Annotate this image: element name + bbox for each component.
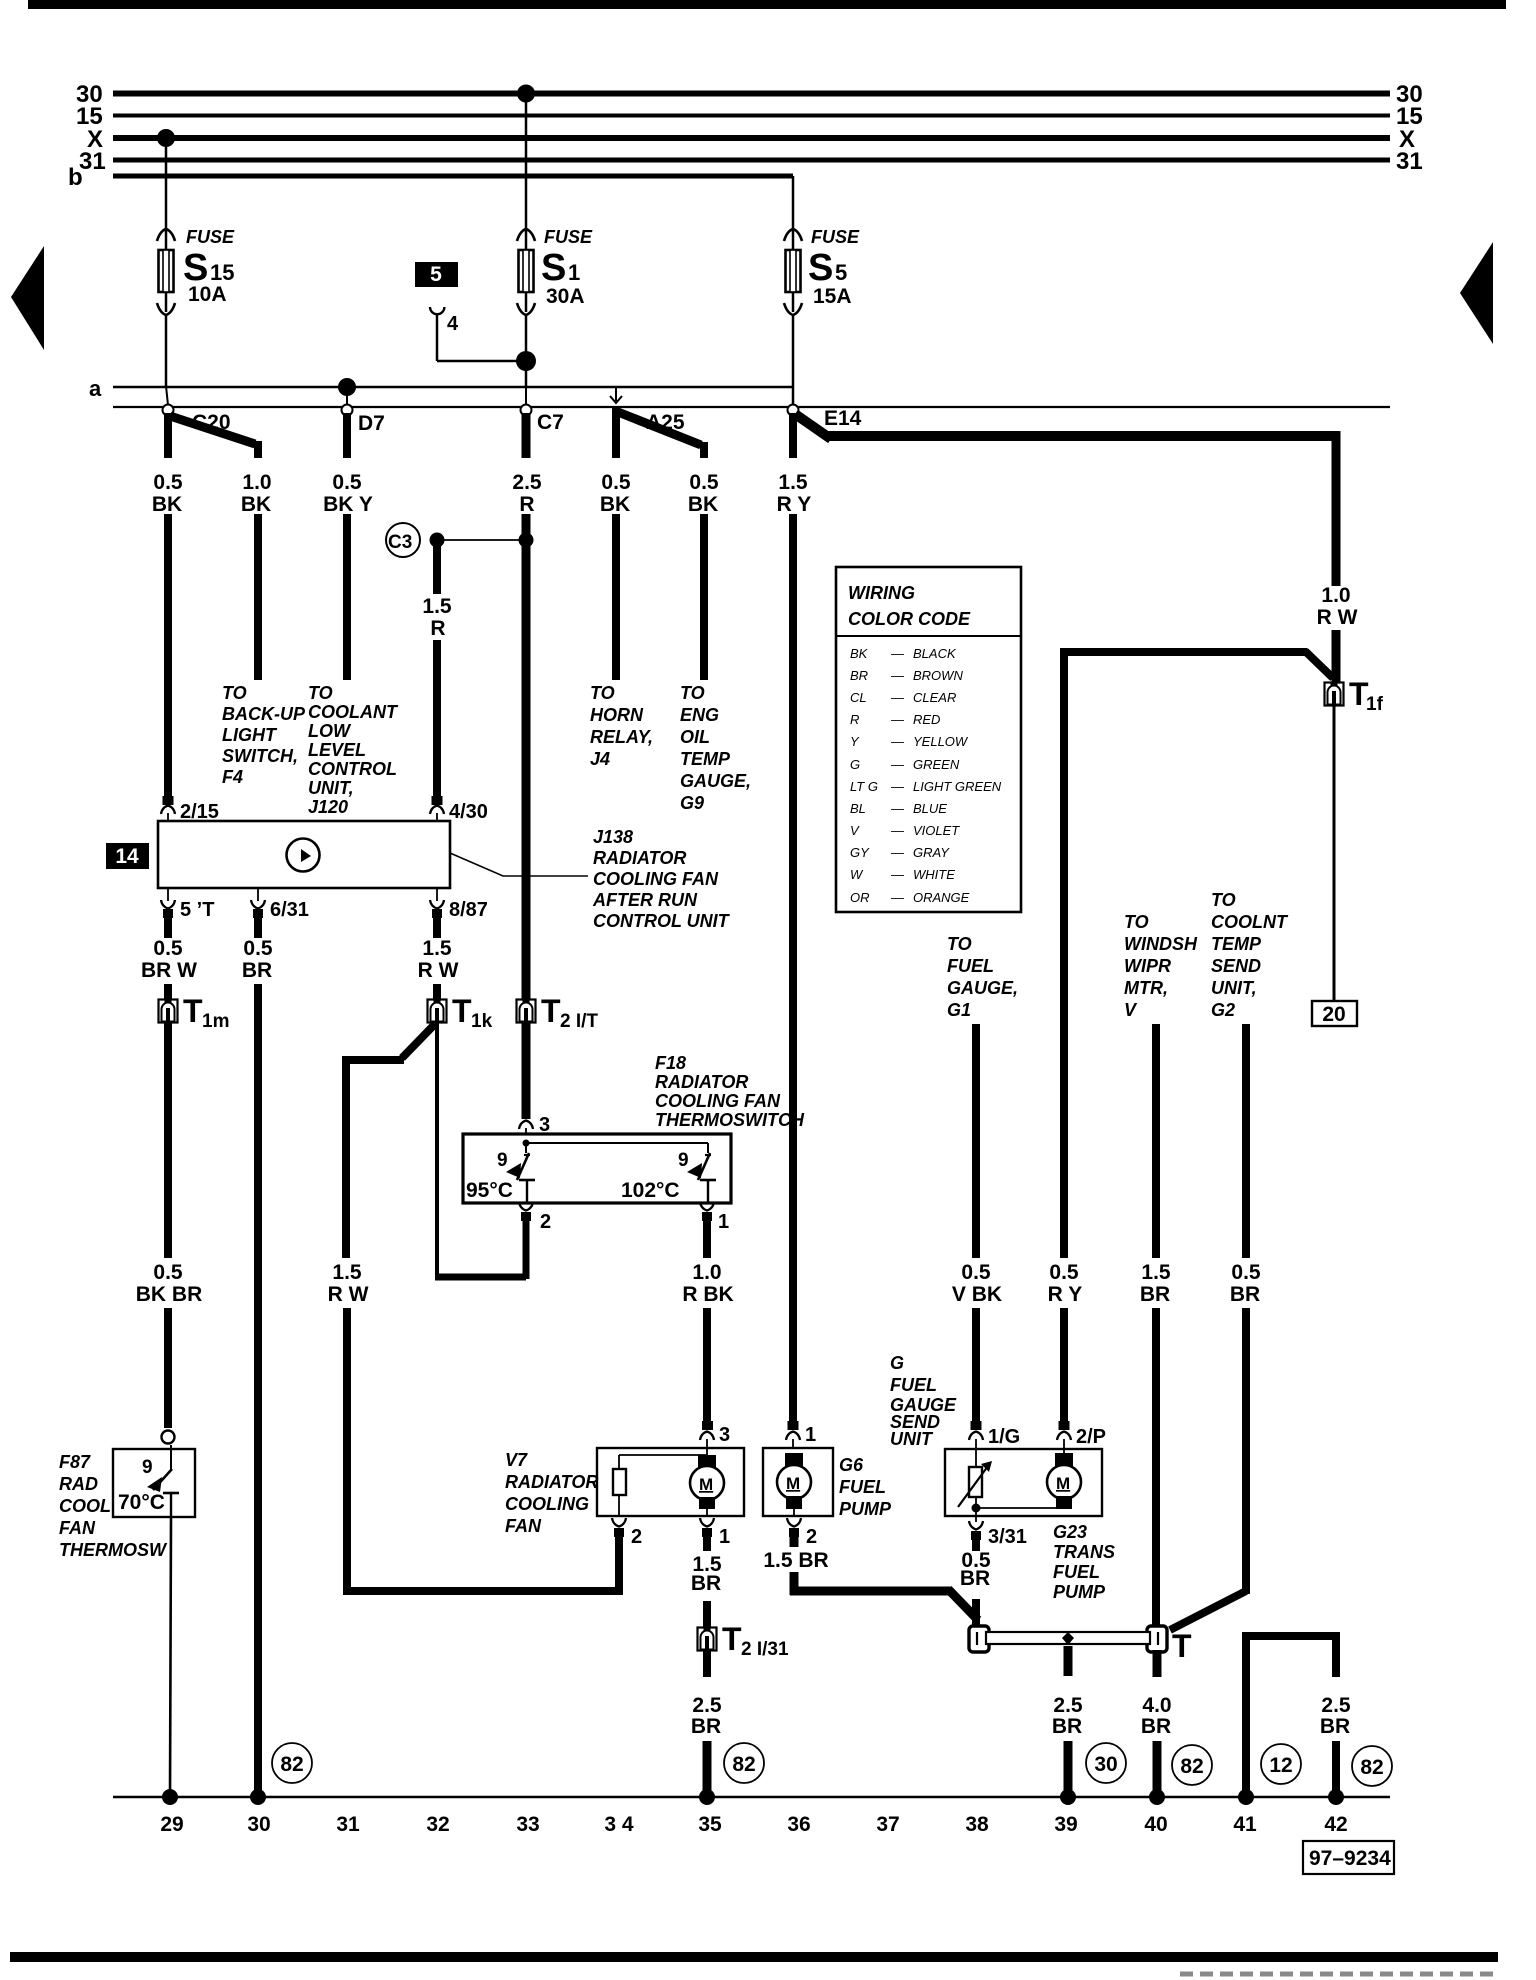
- svg-text:—: —: [890, 801, 905, 816]
- wire 1.5 R to J138 4/30: [433, 640, 441, 800]
- svg-text:J4: J4: [590, 749, 610, 769]
- svg-text:1.5: 1.5: [422, 595, 452, 618]
- wire 0.5 BR W from pin 5/T: [163, 909, 173, 918]
- wire 1.5 BR G6 to T bar: [790, 1532, 799, 1547]
- F87 switch 70C: [118, 1445, 179, 1517]
- svg-text:AFTER RUN: AFTER RUN: [592, 890, 698, 910]
- svg-text:33: 33: [516, 1813, 539, 1836]
- color code entries: [850, 646, 1002, 905]
- wire fuse S5 to terminal E14: [792, 315, 795, 407]
- svg-text:2.5: 2.5: [512, 471, 542, 494]
- svg-text:RED: RED: [913, 712, 940, 727]
- svg-text:GAUGE,: GAUGE,: [947, 978, 1018, 998]
- wire 1.5 BR to T bar: [1152, 1308, 1160, 1628]
- svg-text:BK: BK: [600, 493, 630, 516]
- svg-text:0.5: 0.5: [689, 471, 719, 494]
- svg-text:9: 9: [497, 1150, 508, 1171]
- svg-text:—: —: [890, 867, 905, 882]
- svg-text:2.5: 2.5: [1053, 1694, 1083, 1717]
- svg-text:35: 35: [698, 1813, 722, 1836]
- wire 1.5 R W from pin 8/87: [432, 909, 442, 918]
- svg-text:—: —: [890, 734, 905, 749]
- wire 2.5 BR to track 42: [1332, 1741, 1340, 1797]
- svg-text:6/31: 6/31: [270, 899, 309, 921]
- svg-text:GAUGE,: GAUGE,: [680, 771, 751, 791]
- svg-text:0.5: 0.5: [332, 471, 362, 494]
- G6 motor: [777, 1453, 811, 1517]
- connector C3: [386, 523, 420, 557]
- wire branch C20 to 1.0 BK: [170, 416, 255, 444]
- svg-text:4/30: 4/30: [449, 801, 488, 823]
- wire 0.5 V BK to 1/G: [972, 1308, 980, 1426]
- svg-text:10A: 10A: [188, 283, 227, 306]
- terminal C20: [166, 386, 168, 405]
- junction on bus X: [157, 129, 175, 147]
- svg-text:BR: BR: [1052, 1715, 1082, 1738]
- svg-text:1m: 1m: [202, 1011, 229, 1032]
- svg-text:FUSE: FUSE: [544, 227, 593, 247]
- wire bus b to fuse S5: [792, 176, 795, 230]
- wire T1f to plate 20: [1333, 706, 1336, 1001]
- svg-text:BK Y: BK Y: [323, 493, 373, 516]
- wire 0.5 BK C20 lower: [164, 514, 172, 800]
- fuse S15: [157, 229, 175, 315]
- ground symbol 12 (track 41): [1261, 1744, 1301, 1784]
- svg-text:FUEL: FUEL: [839, 1477, 886, 1497]
- connector T1f: [1325, 683, 1344, 706]
- svg-text:UNIT,: UNIT,: [1211, 978, 1257, 998]
- svg-text:UNIT: UNIT: [890, 1429, 934, 1449]
- wire 1.0 R W down from E14 branch: [1332, 431, 1341, 586]
- svg-text:BK: BK: [688, 493, 718, 516]
- svg-text:37: 37: [876, 1813, 899, 1836]
- wire F87 to track 29: [170, 1517, 171, 1797]
- wire 0.5 BK Y to J120: [343, 514, 351, 680]
- svg-text:2 I/31: 2 I/31: [741, 1639, 789, 1660]
- svg-text:RADIATOR: RADIATOR: [655, 1072, 748, 1092]
- G6 pin 2: [787, 1518, 801, 1527]
- svg-text:2: 2: [806, 1526, 817, 1548]
- svg-text:97–9234: 97–9234: [1309, 1847, 1391, 1870]
- svg-text:FAN: FAN: [59, 1518, 96, 1538]
- track node 29: [162, 1789, 178, 1805]
- wire 1.0 R BK upper: [703, 1216, 711, 1258]
- svg-text:CONTROL UNIT: CONTROL UNIT: [593, 911, 731, 931]
- junction on bus 30: [517, 85, 535, 103]
- connector T2 I/31: [698, 1628, 717, 1651]
- svg-text:FUEL: FUEL: [947, 956, 994, 976]
- jumper wire track 41 to track 42: [1242, 1632, 1250, 1797]
- svg-text:RADIATOR: RADIATOR: [505, 1472, 598, 1492]
- wire 1.5 R from C3: [433, 546, 441, 594]
- wire terminal 4 to S1 node: [437, 360, 524, 363]
- svg-text:30: 30: [1094, 1753, 1117, 1776]
- F18 pin 2: [519, 1202, 533, 1211]
- terminal D7: [346, 388, 348, 405]
- svg-text:TO: TO: [1211, 890, 1236, 910]
- svg-text:FUSE: FUSE: [186, 227, 235, 247]
- svg-text:0.5: 0.5: [153, 937, 183, 960]
- svg-text:15A: 15A: [813, 285, 852, 308]
- svg-text:TO: TO: [947, 934, 972, 954]
- F18 internal node: [523, 1140, 530, 1147]
- svg-text:RADIATOR: RADIATOR: [593, 848, 686, 868]
- svg-text:R Y: R Y: [777, 493, 812, 516]
- svg-text:0.5: 0.5: [243, 937, 273, 960]
- fuse S5: [784, 229, 802, 315]
- svg-text:—: —: [890, 712, 905, 727]
- current track tag 5: [415, 262, 458, 287]
- svg-text:3 4: 3 4: [604, 1813, 634, 1836]
- svg-text:1.5 BR: 1.5 BR: [763, 1549, 828, 1572]
- F18 pin 1: [700, 1202, 714, 1211]
- svg-text:1f: 1f: [1366, 694, 1384, 715]
- svg-text:BR: BR: [691, 1572, 721, 1595]
- svg-text:14: 14: [115, 845, 139, 868]
- svg-text:T: T: [722, 1621, 742, 1657]
- svg-text:BL: BL: [850, 801, 866, 816]
- J138 internal timer symbol: [287, 839, 320, 872]
- svg-text:38: 38: [965, 1813, 989, 1836]
- F18 pin 3: [519, 1121, 533, 1130]
- svg-text:1.5: 1.5: [778, 471, 808, 494]
- bus line 30: [113, 91, 1390, 97]
- svg-text:BK BR: BK BR: [136, 1283, 203, 1306]
- svg-text:THERMOSWITCH: THERMOSWITCH: [655, 1110, 805, 1130]
- svg-text:20: 20: [1322, 1003, 1345, 1026]
- V7 internal series resistor: [613, 1469, 626, 1495]
- svg-text:WINDSH: WINDSH: [1124, 934, 1198, 954]
- svg-text:5: 5: [835, 260, 847, 285]
- svg-text:M: M: [786, 1474, 800, 1493]
- wire 0.5 BR W to T1m: [164, 984, 172, 1001]
- svg-text:J120: J120: [308, 797, 348, 817]
- svg-text:THERMOSW: THERMOSW: [59, 1540, 168, 1560]
- svg-text:G6: G6: [839, 1455, 864, 1475]
- svg-text:C3: C3: [388, 532, 412, 553]
- fuel pump G6 pin 1: [788, 1421, 799, 1430]
- J138 pin 4/30: [432, 796, 443, 805]
- svg-text:1k: 1k: [471, 1011, 493, 1032]
- svg-text:M: M: [1056, 1474, 1070, 1493]
- bottom track rail: [113, 1796, 1390, 1798]
- G pin 2/P: [1059, 1421, 1070, 1430]
- svg-text:WIPR: WIPR: [1124, 956, 1171, 976]
- svg-text:T: T: [183, 993, 203, 1029]
- J138 pin 5/T: [167, 888, 169, 901]
- wire 0.5 BK BR to F87: [164, 1308, 172, 1428]
- junction on line a at D7: [338, 378, 356, 396]
- track node 39: [1060, 1789, 1076, 1805]
- V7 pin 1: [700, 1518, 714, 1527]
- svg-text:2/P: 2/P: [1076, 1426, 1106, 1448]
- svg-text:MTR,: MTR,: [1124, 978, 1168, 998]
- left page arrow: [11, 246, 44, 350]
- svg-text:CLEAR: CLEAR: [913, 690, 956, 705]
- svg-text:5: 5: [430, 263, 442, 286]
- line a: [113, 386, 793, 388]
- svg-text:—: —: [890, 668, 905, 683]
- svg-text:V: V: [1124, 1000, 1138, 1020]
- svg-text:BK: BK: [850, 646, 869, 661]
- connector T1m: [159, 1000, 178, 1023]
- wire 1.5 BR V7 to T2I/31: [703, 1601, 711, 1627]
- wire 0.5 BK to G9: [700, 514, 708, 680]
- svg-text:GRAY: GRAY: [913, 845, 950, 860]
- thermoswitch F87 box: [113, 1449, 195, 1517]
- wire 4.0 BR to track 40: [1153, 1741, 1162, 1797]
- svg-text:UNIT,: UNIT,: [308, 778, 354, 798]
- svg-text:3: 3: [719, 1424, 730, 1446]
- svg-text:D7: D7: [358, 412, 385, 435]
- wire elbow T1k to 1.5 R W drop: [402, 1024, 435, 1058]
- svg-text:BLUE: BLUE: [913, 801, 947, 816]
- control unit J138 box: [158, 821, 450, 888]
- page bottom border bar: [10, 1952, 1498, 1962]
- svg-text:J138: J138: [593, 827, 633, 847]
- ground symbol 82 (track 40): [1172, 1745, 1212, 1785]
- wire F18 pin 2 down: [523, 1216, 530, 1279]
- svg-text:COOL: COOL: [59, 1496, 111, 1516]
- svg-text:M: M: [699, 1475, 713, 1494]
- svg-text:8/87: 8/87: [449, 899, 488, 921]
- wire 2.5 R C7 lower: [522, 514, 531, 1002]
- wire 0.5 BK from C20 upper: [164, 413, 172, 458]
- svg-text:30A: 30A: [546, 285, 585, 308]
- ground symbol 82 (track 42): [1352, 1746, 1392, 1786]
- svg-text:R W: R W: [1317, 606, 1358, 629]
- svg-text:VIOLET: VIOLET: [913, 823, 960, 838]
- svg-text:5 ’T: 5 ’T: [180, 899, 214, 921]
- svg-text:31: 31: [79, 148, 106, 175]
- wire 0.5 R Y to 2/P: [1060, 1308, 1068, 1426]
- svg-text:1.0: 1.0: [1321, 584, 1350, 607]
- svg-text:1: 1: [568, 260, 580, 285]
- svg-text:LOW: LOW: [308, 721, 352, 741]
- G23 motor: [1047, 1453, 1081, 1509]
- svg-text:2.5: 2.5: [1321, 1694, 1351, 1717]
- svg-text:1/G: 1/G: [988, 1426, 1020, 1448]
- svg-text:G9: G9: [680, 793, 704, 813]
- svg-text:BR: BR: [242, 959, 272, 982]
- svg-text:G2: G2: [1211, 1000, 1235, 1020]
- svg-text:LEVEL: LEVEL: [308, 740, 366, 760]
- svg-text:R Y: R Y: [1048, 1283, 1083, 1306]
- svg-text:LT G: LT G: [850, 779, 878, 794]
- wire 2.5 R from C7 upper: [522, 413, 531, 458]
- wire below T bar right: [1153, 1650, 1162, 1677]
- terminal 4 fork: [430, 307, 444, 314]
- svg-text:31: 31: [1396, 148, 1423, 175]
- svg-text:—: —: [890, 779, 905, 794]
- svg-text:30: 30: [247, 1813, 270, 1836]
- track node 42: [1328, 1789, 1344, 1805]
- svg-text:V7: V7: [505, 1450, 528, 1470]
- svg-text:TO: TO: [222, 683, 247, 703]
- G pin 1/G: [971, 1421, 982, 1430]
- svg-text:b: b: [68, 164, 83, 191]
- svg-text:T: T: [1172, 1628, 1192, 1664]
- svg-text:2: 2: [540, 1211, 551, 1233]
- svg-text:F4: F4: [222, 767, 243, 787]
- svg-text:Y: Y: [850, 734, 860, 749]
- svg-text:102°C: 102°C: [621, 1179, 680, 1202]
- svg-text:G: G: [890, 1353, 904, 1373]
- svg-text:15: 15: [210, 260, 234, 285]
- terminal E14: [788, 405, 799, 416]
- svg-text:1.5: 1.5: [1141, 1261, 1171, 1284]
- svg-text:42: 42: [1324, 1813, 1347, 1836]
- track numbers: [160, 1813, 1347, 1836]
- svg-text:RELAY,: RELAY,: [590, 727, 653, 747]
- wire 0.5 BR from G2: [1242, 1024, 1250, 1258]
- wire branch A25 to second 0.5 BK: [618, 412, 701, 445]
- svg-text:40: 40: [1144, 1813, 1167, 1836]
- J138 pin 2/15: [163, 796, 174, 805]
- wire 0.5 BK Y from D7 upper: [343, 413, 351, 458]
- wire 1.5 R W drop to V7 run: [343, 1308, 351, 1595]
- svg-text:YELLOW: YELLOW: [913, 734, 969, 749]
- svg-text:SWITCH,: SWITCH,: [222, 746, 298, 766]
- wire 1.0 R W to T1f: [1332, 630, 1341, 683]
- svg-text:R: R: [519, 493, 534, 516]
- svg-text:70°C: 70°C: [118, 1491, 165, 1514]
- svg-text:0.5: 0.5: [153, 1261, 183, 1284]
- wire 0.5 BR to T bar diagonal: [1242, 1308, 1250, 1594]
- svg-text:COOLING FAN: COOLING FAN: [655, 1091, 781, 1111]
- wire 1.5 R Y from E14: [789, 413, 797, 458]
- bus line 31: [113, 158, 1390, 163]
- T bar center stub: [1064, 1646, 1073, 1676]
- svg-text:FUEL: FUEL: [890, 1375, 937, 1395]
- wire 1.5 R W to T1k: [433, 984, 441, 1001]
- track node 40: [1149, 1789, 1165, 1805]
- wire 0.5 BK BR below T1m: [164, 1023, 172, 1258]
- wire fuse S15 to line a: [165, 315, 168, 388]
- svg-text:ORANGE: ORANGE: [913, 890, 970, 905]
- svg-text:39: 39: [1054, 1813, 1077, 1836]
- bus line X: [113, 135, 1390, 141]
- junction node S1/terminal 4 branch: [516, 351, 536, 371]
- wire bus X to fuse S15: [165, 138, 168, 230]
- svg-text:—: —: [890, 823, 905, 838]
- svg-text:C7: C7: [537, 411, 564, 434]
- bus line 15: [113, 114, 1390, 118]
- wire V7 pin 2 to R W run: [615, 1532, 623, 1595]
- svg-text:—: —: [890, 845, 905, 860]
- V7 pin 2: [612, 1518, 626, 1527]
- G internal link to G23 motor: [972, 1504, 981, 1513]
- wire 0.5 BR 3/31 to T bar: [972, 1599, 980, 1628]
- lower connector rail: [113, 406, 1390, 408]
- svg-text:TO: TO: [680, 683, 705, 703]
- svg-text:LIGHT: LIGHT: [222, 725, 278, 745]
- svg-text:FUEL: FUEL: [1053, 1562, 1100, 1582]
- svg-text:PUMP: PUMP: [839, 1499, 892, 1519]
- track node 41: [1238, 1789, 1254, 1805]
- svg-text:BR: BR: [1320, 1715, 1350, 1738]
- wire 1.0 R BK to V7 pin 3: [703, 1308, 711, 1426]
- svg-text:BR: BR: [1140, 1283, 1170, 1306]
- svg-text:1.5: 1.5: [332, 1261, 362, 1284]
- wire 1.0 BK to F4: [254, 514, 262, 680]
- svg-text:3/31: 3/31: [988, 1526, 1027, 1548]
- svg-text:32: 32: [426, 1813, 449, 1836]
- svg-text:R W: R W: [328, 1283, 369, 1306]
- svg-text:GY: GY: [850, 845, 870, 860]
- svg-text:BROWN: BROWN: [913, 668, 963, 683]
- svg-text:4: 4: [447, 313, 459, 335]
- svg-text:9: 9: [678, 1150, 689, 1171]
- bus line b: [113, 174, 793, 179]
- svg-text:BR: BR: [691, 1715, 721, 1738]
- svg-text:BK: BK: [152, 493, 182, 516]
- svg-text:82: 82: [1360, 1756, 1383, 1779]
- diagram number 97-9234: [1303, 1841, 1394, 1874]
- svg-text:OIL: OIL: [680, 727, 710, 747]
- svg-text:31: 31: [336, 1813, 360, 1836]
- svg-text:BR: BR: [960, 1567, 990, 1590]
- svg-text:0.5: 0.5: [1049, 1261, 1079, 1284]
- svg-text:LIGHT GREEN: LIGHT GREEN: [913, 779, 1002, 794]
- svg-text:TO: TO: [308, 683, 333, 703]
- ground symbol 30 (track 39): [1086, 1743, 1126, 1783]
- svg-text:G1: G1: [947, 1000, 971, 1020]
- J138 callout line: [450, 853, 588, 876]
- svg-text:82: 82: [280, 1753, 303, 1776]
- svg-text:SEND: SEND: [1211, 956, 1261, 976]
- svg-text:R W: R W: [418, 959, 459, 982]
- svg-text:COOLING: COOLING: [505, 1494, 589, 1514]
- wire 0.5 BR from pin 6/31: [253, 909, 263, 918]
- thermoswitch F18 box: [463, 1134, 731, 1203]
- svg-text:BLACK: BLACK: [913, 646, 957, 661]
- svg-text:0.5: 0.5: [601, 471, 631, 494]
- svg-text:COLOR CODE: COLOR CODE: [848, 609, 971, 629]
- plate terminal 20: [1312, 1001, 1357, 1026]
- svg-text:1: 1: [719, 1526, 730, 1548]
- G sender variable resistor: [958, 1461, 992, 1508]
- connector T2 I/T: [517, 1000, 536, 1023]
- svg-text:E14: E14: [824, 407, 862, 430]
- svg-text:CONTROL: CONTROL: [308, 759, 397, 779]
- svg-text:GREEN: GREEN: [913, 757, 960, 772]
- fuel gauge send unit G box: [945, 1449, 1102, 1516]
- svg-text:1.5: 1.5: [422, 937, 452, 960]
- svg-text:PUMP: PUMP: [1053, 1582, 1106, 1602]
- svg-text:1: 1: [718, 1211, 729, 1233]
- svg-text:R: R: [430, 617, 445, 640]
- ground symbol 82 (track 35): [724, 1743, 764, 1783]
- wire fuse S1 to line a: [525, 315, 528, 388]
- svg-text:29: 29: [160, 1813, 183, 1836]
- svg-text:R: R: [850, 712, 859, 727]
- svg-text:12: 12: [1269, 1754, 1292, 1777]
- svg-text:4.0: 4.0: [1142, 1694, 1171, 1717]
- svg-text:COOLNT: COOLNT: [1211, 912, 1289, 932]
- svg-text:T: T: [452, 993, 472, 1029]
- svg-text:0.5: 0.5: [1231, 1261, 1261, 1284]
- svg-text:BR: BR: [1141, 1715, 1171, 1738]
- svg-text:FUSE: FUSE: [811, 227, 860, 247]
- track node 30: [250, 1789, 266, 1805]
- svg-text:G: G: [850, 757, 860, 772]
- svg-text:WHITE: WHITE: [913, 867, 955, 882]
- svg-text:F87: F87: [59, 1452, 91, 1472]
- svg-text:CL: CL: [850, 690, 867, 705]
- svg-text:W: W: [850, 867, 864, 882]
- svg-text:0.5: 0.5: [153, 471, 183, 494]
